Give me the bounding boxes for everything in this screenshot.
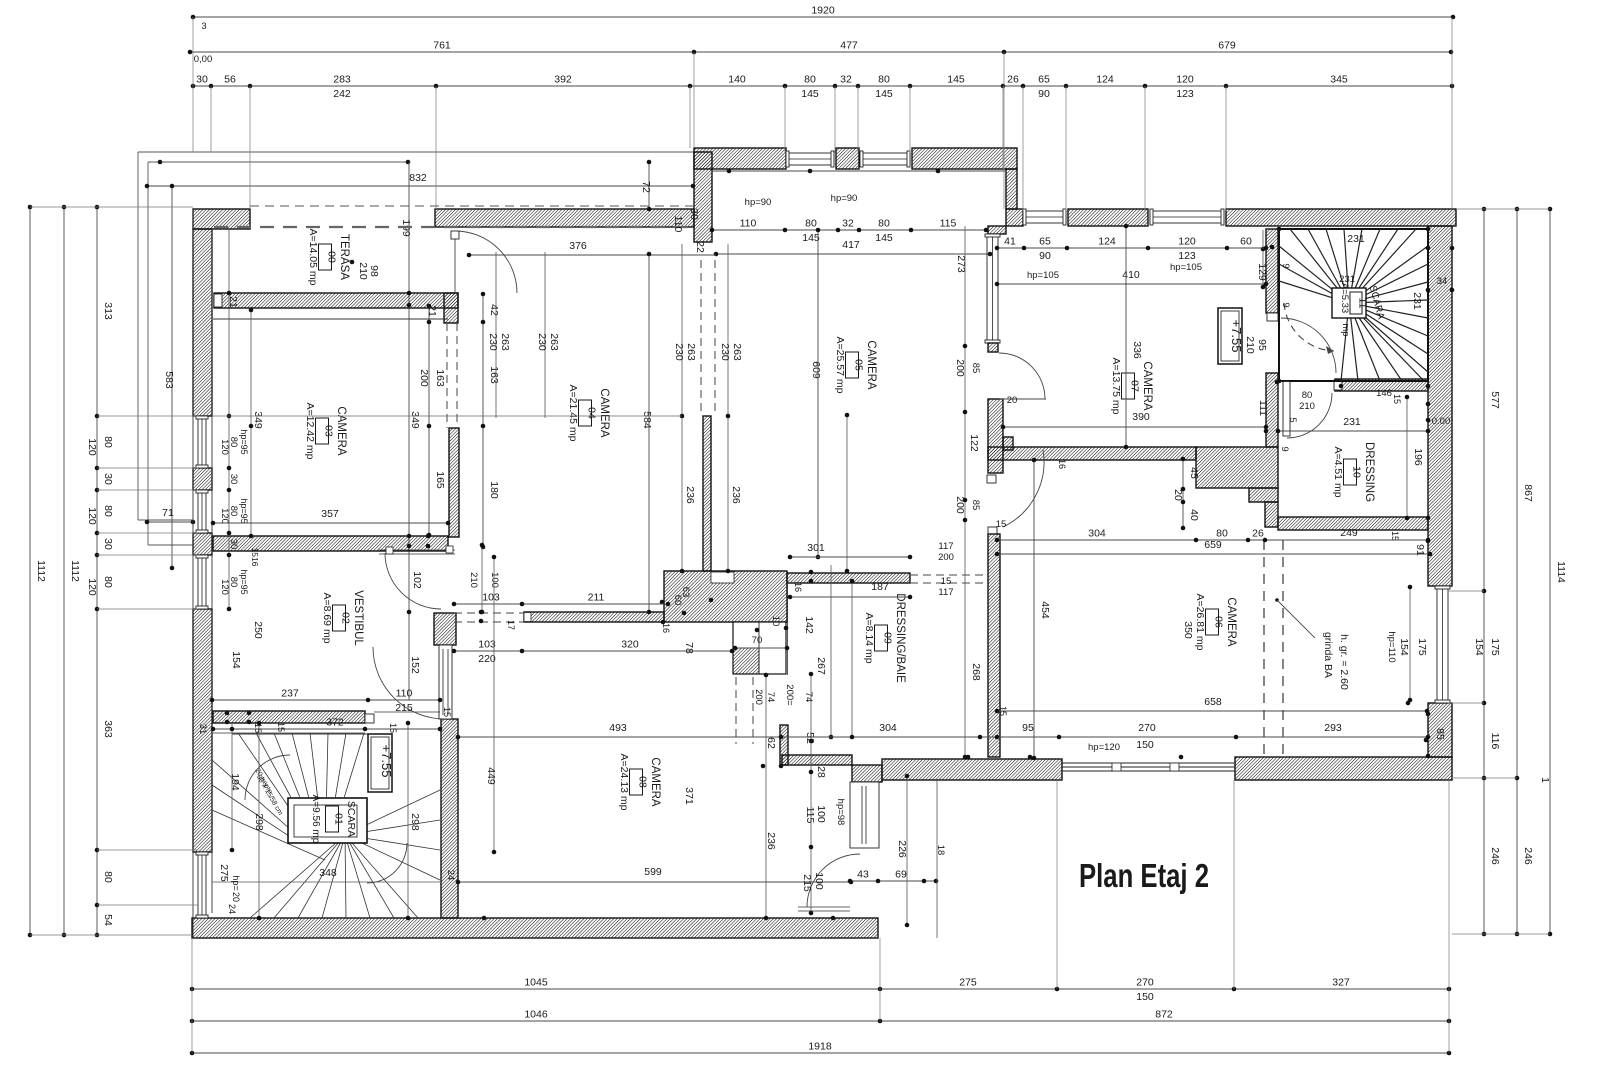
svg-text:A=12.42 mp: A=12.42 mp [304,403,316,460]
svg-text:350: 350 [1182,621,1194,639]
extension lines top [192,17,194,152]
svg-text:A=25.57 mp: A=25.57 mp [834,337,846,394]
svg-text:493: 493 [609,722,627,734]
right dim 1114 [1549,209,1551,934]
dashed opening baie left [735,677,737,744]
svg-text:20: 20 [231,892,241,902]
svg-text:22: 22 [694,241,706,253]
svg-text:345: 345 [1330,74,1348,86]
door C08 balcony [850,782,879,848]
svg-text:00: 00 [326,251,338,263]
svg-text:357: 357 [321,508,339,520]
svg-text:09: 09 [882,632,894,644]
svg-text:761: 761 [433,40,451,52]
svg-text:26: 26 [1007,74,1019,86]
floor line left inner face [211,229,213,913]
svg-text:95: 95 [1256,339,1268,351]
wall: NE top piers [1006,209,1023,226]
svg-text:72: 72 [640,181,652,193]
svg-text:336: 336 [1131,341,1143,359]
svg-text:80: 80 [102,505,114,517]
svg-text:06: 06 [1213,616,1225,628]
svg-text:123: 123 [1178,250,1196,262]
door terasa [454,231,456,293]
svg-text:659: 659 [1204,539,1222,551]
wall: north band west [435,209,694,227]
svg-text:hp=105: hp=105 [1027,270,1059,281]
svg-text:477: 477 [840,40,858,52]
svg-text:02: 02 [340,612,352,624]
svg-text:24: 24 [445,870,456,881]
svg-text:56: 56 [224,74,236,86]
svg-text:111: 111 [1257,400,1269,416]
svg-text:17: 17 [506,620,516,630]
svg-text:DRESSING: DRESSING [1363,442,1375,502]
dashed opening vestibul band [454,612,524,614]
svg-text:226: 226 [896,840,908,858]
svg-text:h. gr. = 2.60: h. gr. = 2.60 [1338,634,1350,690]
bottom dim row3 [192,1052,1449,1054]
svg-text:VESTIBUL: VESTIBUL [352,590,364,646]
svg-text:32: 32 [840,74,852,86]
svg-text:210: 210 [1244,336,1256,354]
svg-text:03: 03 [323,425,335,437]
dashed roof overhang terasa [250,205,694,207]
dim total 1920 [193,16,1453,18]
dashed C05 bottom half-wall [910,574,988,576]
dims dressing [1278,430,1428,432]
svg-text:115: 115 [940,218,957,230]
wall: C07/C06 band [988,447,1196,460]
svg-text:293: 293 [1324,722,1342,734]
svg-text:30: 30 [102,473,114,485]
svg-text:80: 80 [805,218,817,230]
svg-text:04: 04 [586,407,598,419]
left dim 1112 [29,207,31,935]
svg-text:154: 154 [1398,638,1410,656]
svg-text:9: 9 [1280,263,1291,268]
svg-text:Plan Etaj 2: Plan Etaj 2 [1079,858,1209,895]
svg-text:+7.55: +7.55 [379,745,394,778]
svg-text:28: 28 [815,766,827,778]
svg-text:A=14.05 mp: A=14.05 mp [307,229,319,286]
svg-text:832: 832 [409,172,427,184]
dim 583 vertical [171,186,173,568]
svg-text:100: 100 [813,872,825,890]
svg-text:20: 20 [1007,395,1018,406]
svg-text:65: 65 [1038,74,1050,86]
door vestibul top [379,549,455,551]
dims baie [790,556,910,558]
left dim detail [96,207,98,935]
svg-text:80: 80 [878,218,890,230]
svg-text:236: 236 [765,832,777,850]
svg-text:15: 15 [1390,531,1400,541]
svg-text:hp=110: hp=110 [1386,631,1397,662]
extension lines right [1456,208,1550,210]
svg-text:A=8.14 mp: A=8.14 mp [863,612,875,663]
svg-text:263: 263 [685,343,697,361]
svg-text:267: 267 [815,657,827,675]
svg-text:146: 146 [1376,388,1392,399]
stair boundary scara11 [1279,229,1428,381]
svg-text:32: 32 [842,218,854,230]
svg-text:577: 577 [1489,391,1501,409]
wall: vestibul east [441,719,458,918]
svg-text:194: 194 [229,773,241,791]
svg-text:120: 120 [86,578,98,596]
svg-text:hp=95: hp=95 [239,429,249,454]
svg-text:371: 371 [683,787,695,805]
svg-text:215: 215 [801,874,813,892]
dim 175/154 window east [1409,587,1411,700]
door frame vestibul-C08 [439,645,452,719]
svg-text:298: 298 [409,813,421,831]
svg-text:hp=95: hp=95 [239,569,249,594]
svg-text:246: 246 [1522,847,1534,865]
svg-text:583: 583 [163,371,175,389]
svg-text:110: 110 [672,216,684,233]
svg-text:mp: mp [1340,323,1351,336]
wall: terasa bottom band [214,293,458,308]
dim 761/477/679 [190,51,1451,53]
window left 2 [198,490,206,533]
svg-text:117: 117 [938,541,953,552]
svg-text:231: 231 [1343,416,1361,428]
svg-text:10: 10 [770,616,781,627]
bottom dim row2 [192,1020,1449,1022]
svg-text:71: 71 [162,507,174,519]
svg-text:100: 100 [815,805,827,823]
wall: top wall piers [694,148,786,169]
svg-text:15: 15 [388,723,398,733]
svg-text:5: 5 [1288,417,1298,422]
svg-text:116: 116 [1489,733,1501,750]
wall: baie bottom band [782,755,852,765]
svg-text:236: 236 [730,486,742,504]
svg-text:231: 231 [1411,292,1423,310]
svg-text:15: 15 [276,722,286,732]
svg-text:872: 872 [1155,1009,1173,1021]
svg-text:263: 263 [499,333,511,351]
window NE west upper [987,234,998,343]
svg-text:454: 454 [1039,601,1051,619]
svg-text:163: 163 [488,366,500,384]
dims scara01 [213,728,440,730]
svg-text:165: 165 [434,471,446,489]
svg-text:74: 74 [803,692,814,703]
svg-text:154: 154 [1473,638,1485,656]
wall: stair bottom band [1335,379,1428,391]
dim 273/200/85 column [964,226,966,757]
door dressing [1283,381,1290,436]
dim 199 vertical [408,162,410,700]
svg-text:grinda BA: grinda BA [1322,632,1334,678]
svg-text:1045: 1045 [524,977,548,989]
wall: terasa top [193,209,250,229]
svg-text:01: 01 [333,813,345,825]
baie left edge [787,583,789,675]
svg-text:30: 30 [228,474,239,485]
chain line y416 [213,415,682,417]
svg-text:250: 250 [252,621,264,639]
window top 2 [860,153,910,165]
svg-text:07: 07 [1129,380,1141,392]
svg-text:30: 30 [102,538,114,550]
dims 263/230 pairs [495,252,497,418]
dims camera05 top [712,170,1006,172]
svg-text:05: 05 [853,359,865,371]
wall: central block [664,571,787,622]
first tread edge [213,732,365,734]
window top 1 [786,153,834,165]
svg-text:301: 301 [807,542,825,554]
stair scara11 eye box [1332,288,1366,318]
reference outline of lower floor [138,151,694,153]
svg-text:103: 103 [482,592,500,604]
wall: left outer wall segments [193,229,212,416]
svg-text:313: 313 [102,302,114,320]
svg-text:211: 211 [588,592,605,604]
wall: C05 low wall [703,416,711,571]
svg-text:349: 349 [409,411,421,429]
svg-text:236: 236 [684,486,696,504]
left dim 1112 b [63,207,65,935]
svg-text:1114: 1114 [1555,561,1567,583]
svg-text:150: 150 [1136,739,1154,751]
svg-text:60: 60 [1240,236,1252,248]
svg-text:20: 20 [1172,489,1184,501]
right dim 577 [1483,209,1485,934]
dim 832 [147,185,693,187]
wall: jog x694 [694,152,712,242]
svg-text:187: 187 [871,581,889,593]
dim 129 line [1262,230,1264,287]
window left 3 [198,555,206,609]
svg-text:1918: 1918 [808,1041,832,1053]
svg-text:298: 298 [253,813,265,831]
dim 71 [147,521,193,523]
window left 4 [198,852,206,918]
svg-text:A=24.13 mp: A=24.13 mp [618,754,630,811]
svg-text:31: 31 [197,724,208,735]
svg-text:16: 16 [1057,459,1067,469]
svg-text:142: 142 [803,616,815,634]
svg-text:1112: 1112 [69,560,81,582]
svg-text:231: 231 [1347,233,1365,245]
wall: NE wing west [988,226,1006,234]
dim 72 vertical [648,162,650,209]
svg-text:26: 26 [1252,528,1264,540]
svg-text:CAMERA: CAMERA [649,757,661,807]
dim 417 [716,253,990,255]
svg-text:95: 95 [1022,722,1034,734]
svg-text:410: 410 [1122,269,1140,281]
stair scara11 dots [1277,227,1282,232]
floor line C03 top [213,318,448,320]
svg-text:SCARA: SCARA [345,801,357,837]
grinda leader [1275,598,1279,602]
svg-text:34: 34 [1437,276,1448,287]
svg-text:30: 30 [228,539,239,550]
svg-text:30: 30 [196,74,208,86]
svg-text:102: 102 [411,571,423,589]
svg-text:230: 230 [536,333,548,351]
level +7.55 near scara11 [1218,308,1242,364]
extension lines left [30,206,193,208]
svg-text:124: 124 [1096,74,1114,86]
svg-text:A=4.51 mp: A=4.51 mp [1332,446,1344,497]
svg-text:80: 80 [1302,390,1313,401]
svg-text:249: 249 [1340,527,1358,539]
svg-text:220: 220 [478,653,496,665]
svg-text:A=9.56 mp: A=9.56 mp [310,795,321,844]
svg-text:80: 80 [102,576,114,588]
dim 42 and 163/180 col [482,294,484,547]
svg-text:304: 304 [1088,528,1106,540]
svg-text:230: 230 [487,333,499,351]
svg-text:376: 376 [569,240,587,252]
svg-text:9: 9 [1280,302,1291,307]
svg-text:hp=95: hp=95 [239,498,249,523]
svg-text:15: 15 [442,707,452,717]
svg-text:80: 80 [102,436,114,448]
wall: scara top band [213,711,365,723]
svg-text:9: 9 [1279,446,1290,451]
svg-text:1920: 1920 [811,5,835,17]
wall: SE band [1235,757,1452,780]
chimney box [733,622,786,674]
door vestibul right [373,647,445,719]
svg-text:679: 679 [1218,40,1236,52]
wall: C05 south half wall [787,573,910,583]
window NE top 2 [1150,211,1224,223]
svg-text:15: 15 [253,723,263,733]
svg-text:609: 609 [810,361,822,379]
svg-text:283: 283 [333,74,351,86]
svg-text:CAMERA: CAMERA [598,388,610,438]
svg-text:70: 70 [752,635,763,646]
svg-text:80: 80 [878,74,890,86]
svg-text:80: 80 [228,437,239,448]
svg-text:246: 246 [1489,847,1501,865]
svg-text:145: 145 [947,74,965,86]
svg-text:117: 117 [938,587,953,598]
svg-text:275: 275 [218,864,230,882]
svg-text:78: 78 [683,642,695,654]
dashed opening C05 left [700,260,702,416]
svg-text:867: 867 [1522,484,1534,502]
wall: stair left [1266,229,1278,313]
svg-text:120: 120 [86,507,98,525]
svg-text:200=: 200= [784,684,795,706]
dim detail row [193,85,1452,87]
svg-text:74: 74 [765,692,776,703]
svg-text:A=13.75 mp: A=13.75 mp [1110,358,1122,415]
svg-text:658: 658 [1204,696,1222,708]
svg-text:16: 16 [661,623,671,633]
svg-text:372: 372 [326,717,344,729]
svg-text:CAMERA: CAMERA [1141,361,1153,411]
svg-text:A=21.45 mp: A=21.45 mp [567,385,579,442]
window NE top 1 [1023,211,1066,223]
svg-text:120: 120 [1176,74,1194,86]
svg-text:417: 417 [842,239,860,251]
svg-text:21: 21 [426,305,438,317]
svg-text:80: 80 [804,74,816,86]
svg-text:hp=: hp= [231,875,241,890]
svg-text:200: 200 [938,552,954,563]
svg-text:196: 196 [1412,448,1424,466]
wall: dressing bottom band [1278,517,1428,530]
svg-text:0,00: 0,00 [194,54,213,65]
svg-text:140: 140 [728,74,746,86]
svg-text:100: 100 [489,572,500,588]
svg-text:52: 52 [804,732,816,744]
dashed opening C03/C04 [446,323,448,428]
svg-text:90: 90 [1039,250,1051,262]
svg-text:231: 231 [1339,274,1355,285]
svg-text:152: 152 [409,656,421,674]
extension lines bottom [191,938,193,1053]
svg-text:275: 275 [959,977,977,989]
svg-text:90: 90 [1038,88,1050,100]
svg-text:115: 115 [804,807,816,824]
wall: vestibul block [434,613,456,645]
window left 1 [198,416,206,468]
svg-text:273: 273 [955,255,967,273]
stair scara11 treads [1290,229,1337,288]
svg-text:CAMERA: CAMERA [865,340,877,390]
svg-text:200: 200 [753,689,764,705]
svg-text:0.00: 0.00 [1432,416,1451,427]
svg-text:263: 263 [731,343,743,361]
svg-text:A=5.33: A=5.33 [1339,283,1350,313]
svg-text:154: 154 [230,651,242,669]
svg-text:3: 3 [201,21,206,32]
svg-text:1: 1 [1539,777,1551,783]
svg-text:45: 45 [1188,467,1200,479]
svg-text:42: 42 [488,304,500,316]
svg-text:CAMERA: CAMERA [335,406,347,456]
window south long sill [1062,762,1235,764]
svg-text:69: 69 [895,869,907,881]
svg-text:15: 15 [1392,394,1402,404]
svg-text:A=26.81 mp: A=26.81 mp [1194,594,1206,651]
svg-text:80: 80 [228,506,239,517]
dim 376b [469,254,716,256]
stair boundary scara01 top tread [232,733,371,735]
svg-text:hp=98: hp=98 [835,799,846,826]
svg-text:1112: 1112 [35,560,47,582]
svg-text:175: 175 [1416,638,1428,656]
svg-text:200: 200 [954,359,966,377]
svg-text:80: 80 [228,577,239,588]
stair scara01 dim lines [231,723,233,850]
svg-text:1046: 1046 [524,1009,548,1021]
svg-text:200: 200 [954,496,966,514]
svg-text:215: 215 [395,702,413,714]
svg-text:CAMERA: CAMERA [1225,597,1237,647]
svg-text:392: 392 [554,74,572,86]
svg-text:230: 230 [719,343,731,361]
svg-text:40: 40 [1188,509,1200,521]
svg-text:123: 123 [1176,88,1194,100]
svg-text:80: 80 [102,871,114,883]
svg-text:200: 200 [418,369,430,387]
bottom dim row1 [192,988,1449,990]
svg-text:348: 348 [319,867,337,879]
